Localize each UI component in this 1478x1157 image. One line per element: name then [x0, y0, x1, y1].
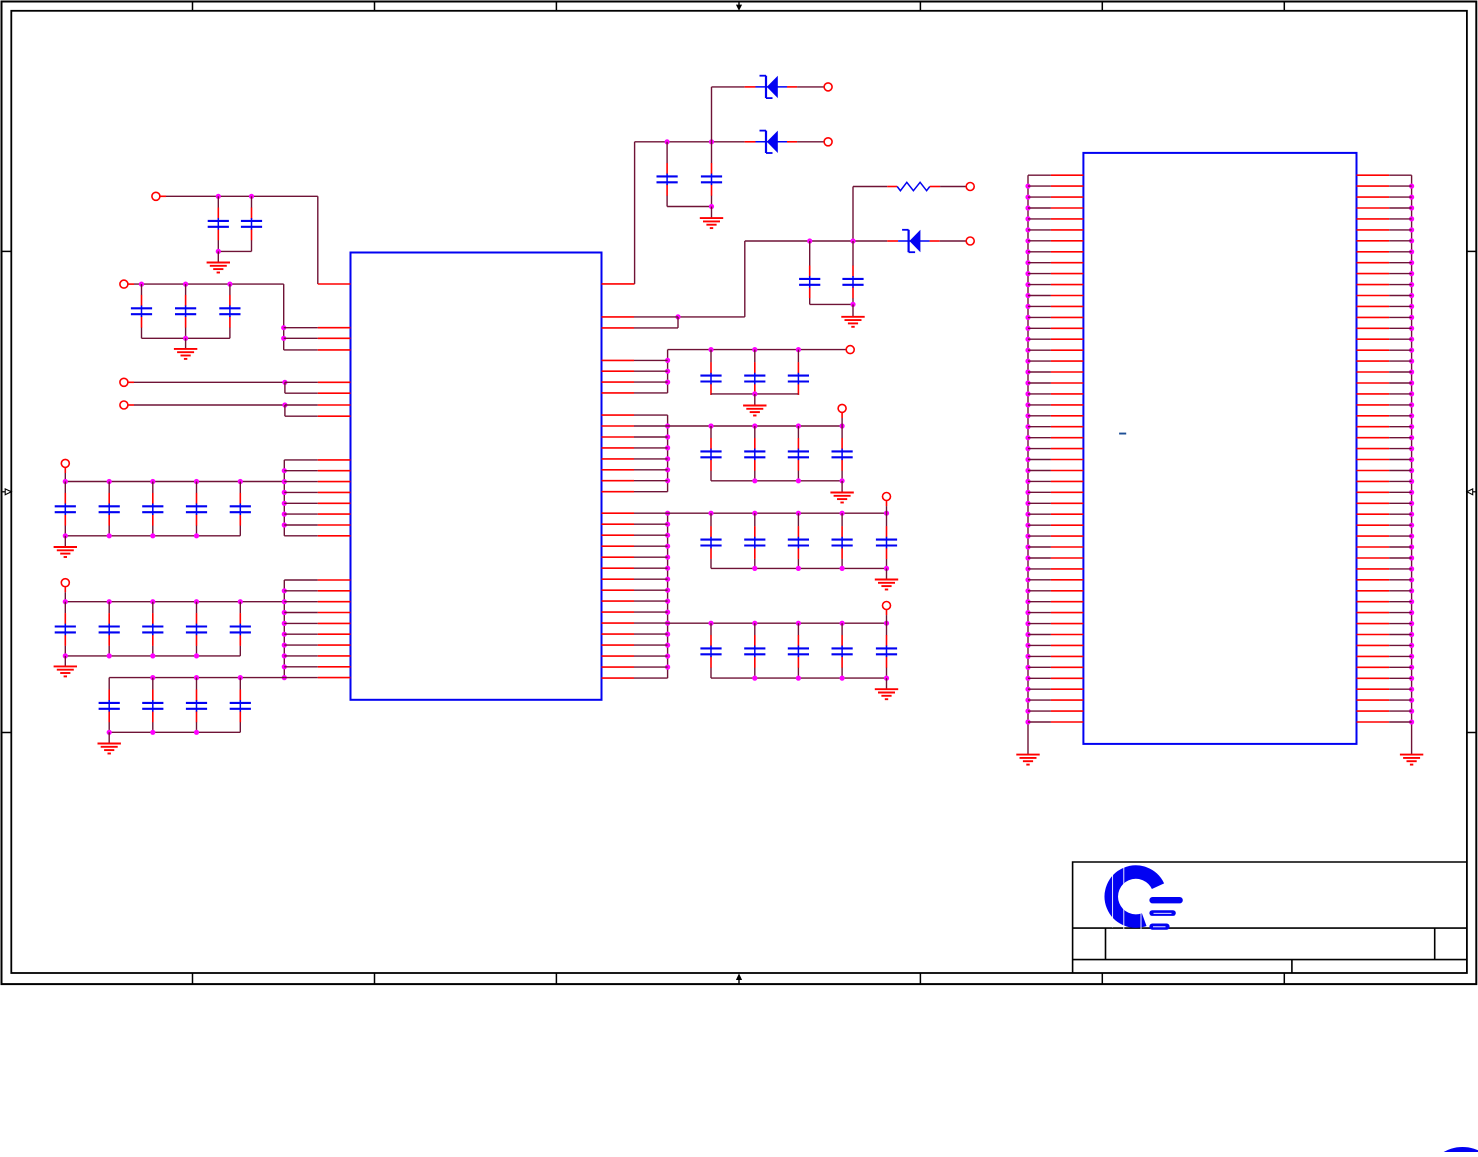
- pin stub U2: [1051, 524, 1084, 526]
- junction: [1025, 632, 1030, 637]
- terminal: [966, 183, 974, 191]
- pin stub U2: [1051, 623, 1084, 625]
- pin stub U2: [1357, 699, 1390, 701]
- junction: [194, 599, 199, 604]
- pin stub U1: [602, 666, 635, 668]
- wire pin row: [1028, 404, 1051, 406]
- text mark inside U2: [1119, 433, 1126, 435]
- pin stub U2: [1357, 612, 1390, 614]
- pin stub U2: [1051, 612, 1084, 614]
- wire pin row: [1028, 655, 1051, 657]
- wire pin row: [284, 327, 318, 329]
- wire pin row: [1389, 612, 1411, 614]
- wire pin row: [1389, 174, 1411, 176]
- pin stub U2: [1051, 448, 1084, 450]
- IC U2: [1083, 153, 1356, 744]
- wire pin row: [1028, 677, 1051, 679]
- pin stub U2: [1051, 710, 1084, 712]
- wire pin row: [1028, 316, 1051, 318]
- junction: [194, 675, 199, 680]
- pin stub U2: [1357, 491, 1390, 493]
- pin stub U2: [1051, 557, 1084, 559]
- junction: [1409, 534, 1414, 539]
- pin stub U1: [318, 415, 351, 417]
- pin stub U1: [318, 404, 351, 406]
- capacitor: [186, 678, 207, 733]
- capacitor: [99, 678, 120, 733]
- junction: [1409, 369, 1414, 374]
- wire pin row: [284, 481, 318, 483]
- wire pin row: [634, 381, 668, 383]
- wire pin row: [634, 534, 668, 536]
- junction: [665, 445, 670, 450]
- junction: [1025, 446, 1030, 451]
- wire ground stub: [841, 481, 843, 493]
- wire pin row: [1389, 546, 1411, 548]
- capacitor: [876, 623, 897, 678]
- junction: [1025, 348, 1030, 353]
- wire pin row: [284, 579, 318, 581]
- junction: [796, 676, 801, 681]
- pin stub U2: [1357, 251, 1390, 253]
- wire net9 row: [745, 240, 887, 242]
- junction: [796, 423, 801, 428]
- junction: [63, 533, 68, 538]
- junction: [107, 653, 112, 658]
- wire pin row: [1389, 677, 1411, 679]
- wire pin row: [1028, 557, 1051, 559]
- wire pin row: [1028, 393, 1051, 395]
- wire: [712, 86, 745, 88]
- junction: [1025, 195, 1030, 200]
- wire: [285, 381, 318, 383]
- junction: [796, 478, 801, 483]
- wire pin row: [1389, 360, 1411, 362]
- wire cap rail: [711, 480, 842, 482]
- pin stub U2: [1051, 174, 1084, 176]
- pin stub U2: [1357, 677, 1390, 679]
- junction: [238, 675, 243, 680]
- pin stub U2: [1051, 338, 1084, 340]
- wire pin row: [1389, 579, 1411, 581]
- junction: [1409, 282, 1414, 287]
- wire pin row: [634, 545, 668, 547]
- wire pin row: [1389, 426, 1411, 428]
- pin stub U2: [1051, 688, 1084, 690]
- wire ground stub: [108, 732, 110, 743]
- capacitor: [744, 513, 765, 568]
- ground G8: [743, 406, 766, 416]
- wire pin row: [1389, 382, 1411, 384]
- junction: [282, 643, 287, 648]
- junction: [1025, 479, 1030, 484]
- wire pin row: [1389, 393, 1411, 395]
- junction: [1409, 512, 1414, 517]
- junction: [752, 347, 757, 352]
- capacitor: [700, 623, 721, 678]
- junction: [1025, 216, 1030, 221]
- junction: [1409, 326, 1414, 331]
- pin stub U2: [1357, 634, 1390, 636]
- junction: [665, 610, 670, 615]
- junction: [709, 204, 714, 209]
- wire pin row: [1389, 480, 1411, 482]
- pin stub U2: [1357, 710, 1390, 712]
- pin stub U1: [602, 589, 635, 591]
- pin stub U2: [1051, 273, 1084, 275]
- junction: [840, 566, 845, 571]
- wire pin row: [634, 677, 668, 679]
- capacitor: [230, 602, 251, 656]
- junction: [665, 533, 670, 538]
- capacitor: [142, 482, 163, 536]
- pin stub U2: [1051, 513, 1084, 515]
- junction: [1409, 435, 1414, 440]
- wire pin row: [1028, 448, 1051, 450]
- junction: [752, 478, 757, 483]
- pin stub U1: [318, 349, 351, 351]
- junction: [281, 325, 286, 330]
- pin stub U2: [1051, 284, 1084, 286]
- wire pin row: [1389, 240, 1411, 242]
- junction: [282, 599, 287, 604]
- wire: [886, 615, 888, 623]
- junction: [150, 599, 155, 604]
- junction: [1409, 184, 1414, 189]
- wire pin row: [1389, 448, 1411, 450]
- pin stub: [128, 381, 135, 383]
- wire net4: [134, 404, 285, 406]
- wire pin row: [1028, 502, 1051, 504]
- pin stub U2: [1357, 349, 1390, 351]
- junction: [194, 479, 199, 484]
- wire groupCD bus: [667, 513, 669, 678]
- pin stub U2: [1051, 699, 1084, 701]
- pin stub U2: [1051, 459, 1084, 461]
- pin stub: [128, 404, 135, 406]
- wire pin row: [634, 589, 668, 591]
- wire pin row: [284, 677, 318, 679]
- junction: [752, 566, 757, 571]
- junction: [1025, 490, 1030, 495]
- pin stub: [64, 467, 66, 473]
- junction: [665, 566, 670, 571]
- wire pin row: [634, 644, 668, 646]
- wire pin row: [1389, 557, 1411, 559]
- junction: [665, 511, 670, 516]
- capacitor: [700, 426, 721, 481]
- pin stub U2: [1051, 426, 1084, 428]
- wire pin row: [634, 491, 668, 493]
- pin stub U2: [1051, 480, 1084, 482]
- wire U2 left bus: [1027, 175, 1029, 754]
- junction: [850, 302, 855, 307]
- junction: [1409, 413, 1414, 418]
- wire pin row: [1028, 426, 1051, 428]
- junction: [1409, 643, 1414, 648]
- pin stub U2: [1051, 655, 1084, 657]
- wire pin row: [1028, 415, 1051, 417]
- wire pin row: [1028, 327, 1051, 329]
- wire pin row: [284, 622, 318, 624]
- wire pin row: [1028, 305, 1051, 307]
- junction: [282, 511, 287, 516]
- junction: [1025, 337, 1030, 342]
- wire net6 rail: [65, 601, 284, 603]
- wire pin row: [1389, 196, 1411, 198]
- pin stub U2: [1051, 470, 1084, 472]
- wire pin row: [1389, 437, 1411, 439]
- wire pin row: [284, 590, 318, 592]
- junction: [1409, 687, 1414, 692]
- pin stub U2: [1357, 546, 1390, 548]
- pin stub U1: [602, 622, 635, 624]
- pin stub U1: [602, 578, 635, 580]
- junction: [1025, 315, 1030, 320]
- junction: [1409, 490, 1414, 495]
- wire pin row: [1028, 491, 1051, 493]
- zener diode: [745, 131, 798, 153]
- capacitor: [832, 513, 853, 568]
- wire pin row: [1028, 546, 1051, 548]
- pin stub U2: [1357, 470, 1390, 472]
- wire net8 riser: [634, 142, 636, 284]
- wire pin row: [1028, 273, 1051, 275]
- ground G12: [1016, 755, 1039, 765]
- wire pin row: [634, 633, 668, 635]
- junction: [1025, 468, 1030, 473]
- junction: [665, 467, 670, 472]
- pin stub U2: [1051, 721, 1084, 723]
- capacitor: [842, 241, 863, 304]
- wire pin row: [634, 556, 668, 558]
- junction: [1025, 501, 1030, 506]
- junction: [665, 599, 670, 604]
- junction: [282, 380, 287, 385]
- pin stub U2: [1357, 502, 1390, 504]
- wire pin row: [1389, 218, 1411, 220]
- pin stub U1.L1: [318, 283, 351, 285]
- ground G1: [207, 263, 230, 273]
- pin stub U2: [1357, 404, 1390, 406]
- pin stub U2: [1357, 655, 1390, 657]
- pin stub U2: [1357, 666, 1390, 668]
- pin stub U1: [602, 447, 635, 449]
- pin stub U2: [1051, 666, 1084, 668]
- pin stub U1: [318, 666, 351, 668]
- junction: [665, 577, 670, 582]
- wire: [797, 141, 824, 143]
- junction: [752, 391, 757, 396]
- junction: [1409, 523, 1414, 528]
- wire pin row: [284, 513, 318, 515]
- junction: [1025, 359, 1030, 364]
- wire pin row: [1389, 262, 1411, 264]
- ground G10: [875, 580, 898, 590]
- wire pin row: [1028, 480, 1051, 482]
- junction: [1025, 523, 1030, 528]
- junction: [1409, 665, 1414, 670]
- wire pin row: [1028, 688, 1051, 690]
- wire pin row: [1028, 634, 1051, 636]
- wire pin row: [634, 425, 668, 427]
- pin stub U2: [1051, 240, 1084, 242]
- pin stub U2: [1357, 338, 1390, 340]
- pin stub U2: [1051, 371, 1084, 373]
- wire net3: [134, 381, 285, 383]
- wire pin row: [1389, 404, 1411, 406]
- pin stub: [886, 500, 888, 506]
- junction: [282, 501, 287, 506]
- terminal: [61, 579, 69, 587]
- wire pin row: [284, 644, 318, 646]
- wire pin row: [1389, 634, 1411, 636]
- pin stub U1: [602, 425, 635, 427]
- pin stub U1: [318, 633, 351, 635]
- capacitor: [175, 284, 196, 338]
- wire pin row: [1389, 273, 1411, 275]
- junction: [249, 194, 254, 199]
- wire cap rail: [711, 567, 887, 569]
- wire pin row: [1389, 305, 1411, 307]
- wire pin row: [1389, 371, 1411, 373]
- wire pin row: [1389, 338, 1411, 340]
- pin stub U2: [1357, 174, 1390, 176]
- junction: [1409, 227, 1414, 232]
- junction: [884, 621, 889, 626]
- junction: [796, 621, 801, 626]
- junction: [107, 479, 112, 484]
- wire pin row: [634, 622, 668, 624]
- pin stub U1: [318, 535, 351, 537]
- wire pin row: [1389, 415, 1411, 417]
- pin stub: [160, 195, 167, 197]
- wire pin row: [1028, 623, 1051, 625]
- junction: [238, 479, 243, 484]
- junction: [752, 676, 757, 681]
- pin stub U2: [1051, 535, 1084, 537]
- capacitor: [219, 284, 240, 338]
- junction: [1025, 260, 1030, 265]
- junction: [840, 478, 845, 483]
- junction: [665, 369, 670, 374]
- wire U2 right bus: [1411, 175, 1413, 754]
- pin stub U2: [1051, 305, 1084, 307]
- title block: [1073, 862, 1467, 973]
- wire pin row: [1028, 218, 1051, 220]
- capacitor: [744, 350, 765, 395]
- pin stub U1: [602, 644, 635, 646]
- wire pin row: [634, 480, 668, 482]
- wire pin row: [1028, 459, 1051, 461]
- wire net3 drop: [284, 382, 286, 393]
- ground G11: [875, 689, 898, 699]
- junction: [1409, 468, 1414, 473]
- ground G2: [174, 349, 197, 359]
- wire pin row: [1389, 459, 1411, 461]
- wire pin row: [1389, 666, 1411, 668]
- capacitor: [55, 482, 76, 536]
- junction: [150, 533, 155, 538]
- wire pin row: [1389, 185, 1411, 187]
- wire cap rail: [711, 677, 887, 679]
- pin stub U2: [1051, 415, 1084, 417]
- junction: [796, 566, 801, 571]
- junction: [1025, 610, 1030, 615]
- pin stub U2: [1357, 557, 1390, 559]
- junction: [1409, 479, 1414, 484]
- capacitor: [131, 284, 152, 338]
- junction: [107, 730, 112, 735]
- pin stub U2: [1357, 426, 1390, 428]
- ground G5: [98, 744, 121, 754]
- pin stub U2: [1357, 284, 1390, 286]
- pin stub: [128, 283, 135, 285]
- wire cap link: [667, 206, 711, 208]
- wire pin row: [285, 392, 318, 394]
- junction: [850, 238, 855, 243]
- wire: [940, 240, 967, 242]
- capacitor: [832, 426, 853, 481]
- wire pin row: [284, 612, 318, 614]
- pin stub U2: [1051, 437, 1084, 439]
- junction: [1409, 709, 1414, 714]
- pin stub U2: [1051, 196, 1084, 198]
- junction: [840, 621, 845, 626]
- terminal: [883, 493, 891, 501]
- wire ground stub: [886, 568, 888, 579]
- pin stub U1: [602, 677, 635, 679]
- wire pin row: [1028, 185, 1051, 187]
- junction: [665, 621, 670, 626]
- pin stub U2: [1051, 295, 1084, 297]
- pin stub U2: [1357, 568, 1390, 570]
- junction: [708, 423, 713, 428]
- junction: [1409, 457, 1414, 462]
- pin stub U1: [318, 381, 351, 383]
- capacitor C1: [208, 196, 229, 248]
- wire ground stub: [852, 304, 854, 316]
- wire pin row: [284, 535, 318, 537]
- pin stub U2: [1357, 437, 1390, 439]
- pin stub U1.R1: [602, 283, 635, 285]
- wire pin row: [1389, 502, 1411, 504]
- junction: [1025, 457, 1030, 462]
- wire pin row: [284, 601, 318, 603]
- pin stub U2: [1357, 196, 1390, 198]
- wire pin row: [1028, 360, 1051, 362]
- pin stub U1: [602, 545, 635, 547]
- pin stub U1: [318, 644, 351, 646]
- pin stub U1: [318, 579, 351, 581]
- pin stub U1: [602, 316, 635, 318]
- pin stub U1: [602, 567, 635, 569]
- wire pin row: [1389, 491, 1411, 493]
- junction: [1409, 238, 1414, 243]
- junction: [665, 423, 670, 428]
- wire pin row: [1028, 349, 1051, 351]
- junction: [1025, 391, 1030, 396]
- junction: [150, 479, 155, 484]
- pin stub U1: [318, 513, 351, 515]
- terminal: [966, 237, 974, 245]
- junction: [1025, 687, 1030, 692]
- pin stub U2: [1357, 382, 1390, 384]
- junction: [238, 599, 243, 604]
- pin stub U2: [1051, 382, 1084, 384]
- ground G3: [54, 547, 77, 557]
- wire pin row: [634, 392, 668, 394]
